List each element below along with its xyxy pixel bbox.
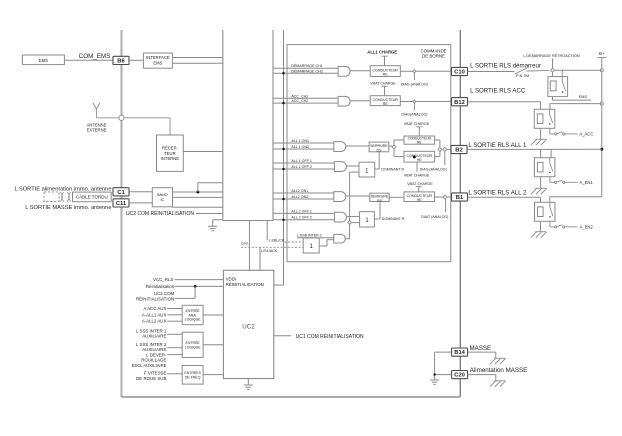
svg-text:ACC_CH1: ACC_CH1 xyxy=(291,94,308,98)
svg-text:EMS: EMS xyxy=(153,61,162,66)
svg-text:DIAG (ANALOG): DIAG (ANALOG) xyxy=(420,167,447,171)
svg-text:ALL2 ON1: ALL2 ON1 xyxy=(291,189,308,193)
svg-text:ALL 1 OFF 1: ALL 1 OFF 1 xyxy=(291,159,311,163)
svg-text:RE: RE xyxy=(417,140,422,144)
svg-text:AUXILIAIRE: AUXILIAIRE xyxy=(142,347,166,352)
svg-text:COM_EMS: COM_EMS xyxy=(79,53,111,60)
svg-text:RE: RE xyxy=(383,73,389,77)
svg-text:UC2 COM: UC2 COM xyxy=(154,291,175,296)
svg-text:Alimentation MASSE: Alimentation MASSE xyxy=(470,367,527,374)
svg-text:EMS: EMS xyxy=(39,58,48,63)
svg-text:L SSS INTER 1: L SSS INTER 1 xyxy=(136,328,167,333)
svg-text:L SORTIE RLS démarreur: L SORTIE RLS démarreur xyxy=(470,63,541,70)
svg-text:UC2: UC2 xyxy=(242,324,255,331)
svg-text:EMS: EMS xyxy=(579,95,588,99)
svg-text:ALL 1 ON1: ALL 1 ON1 xyxy=(291,139,309,143)
svg-text:A_EN1: A_EN1 xyxy=(580,180,594,185)
svg-text:A_ACC: A_ACC xyxy=(579,132,593,137)
svg-text:L DÉMARRAGE RÉTROACTION: L DÉMARRAGE RÉTROACTION xyxy=(523,53,579,58)
svg-text:A-ALL2 AUX: A-ALL2 AUX xyxy=(142,319,167,324)
svg-text:L EBL/CK: L EBL/CK xyxy=(269,239,285,243)
svg-text:MASSE: MASSE xyxy=(470,345,492,352)
svg-text:L SORTIE MASSE immo. antenne: L SORTIE MASSE immo. antenne xyxy=(25,205,111,211)
svg-text:DS: DS xyxy=(376,148,382,152)
svg-text:DE ROUE SUB: DE ROUE SUB xyxy=(136,376,166,381)
svg-text:P-N SM: P-N SM xyxy=(516,74,529,78)
svg-text:VBAT CHARGE: VBAT CHARGE xyxy=(404,174,430,178)
svg-text:B+: B+ xyxy=(599,51,605,56)
svg-text:A_EN2: A_EN2 xyxy=(580,225,594,230)
svg-text:C1: C1 xyxy=(117,190,125,196)
svg-text:VDDi: VDDi xyxy=(226,277,236,282)
svg-text:C20: C20 xyxy=(454,373,465,379)
svg-text:RÉINITIALISATION: RÉINITIALISATION xyxy=(136,296,174,301)
svg-text:Com: Com xyxy=(241,242,248,246)
svg-text:ALL1 CHARGE: ALL1 CHARGE xyxy=(367,49,397,54)
svg-text:ROUILLAGE: ROUILLAGE xyxy=(141,358,166,363)
svg-text:A-ALL1 AUX: A-ALL1 AUX xyxy=(142,312,167,317)
svg-text:L SSS INTER 2: L SSS INTER 2 xyxy=(136,342,167,347)
svg-text:AUXILIAIRE: AUXILIAIRE xyxy=(142,334,166,339)
svg-text:ALL2 ON2: ALL2 ON2 xyxy=(291,195,308,199)
svg-text:L SSB INTER 1: L SSB INTER 1 xyxy=(297,233,322,237)
svg-text:VBAT CHARGE: VBAT CHARGE xyxy=(407,182,433,186)
svg-text:LOGIQUE: LOGIQUE xyxy=(185,345,202,349)
svg-text:EXTERNE: EXTERNE xyxy=(87,128,107,133)
svg-text:RÉCEP-: RÉCEP- xyxy=(162,146,178,151)
svg-text:UC1 COM RÉINITIALISATION: UC1 COM RÉINITIALISATION xyxy=(296,333,364,340)
svg-text:DOMINANT R: DOMINANT R xyxy=(381,168,404,172)
svg-text:DE BORNE: DE BORNE xyxy=(422,54,445,59)
svg-text:ALL 2 OFF 2: ALL 2 OFF 2 xyxy=(291,216,311,220)
svg-text:A ACC AUX: A ACC AUX xyxy=(143,306,166,311)
svg-text:HE: HE xyxy=(417,158,423,162)
svg-text:DIAG (ANALOG): DIAG (ANALOG) xyxy=(401,83,428,87)
svg-text:DE FRÉQ: DE FRÉQ xyxy=(185,374,201,379)
svg-text:DÉMARRAGE CH2: DÉMARRAGE CH2 xyxy=(291,68,322,73)
svg-text:B12: B12 xyxy=(454,100,465,106)
svg-text:L SORTIE RLS ALL 2: L SORTIE RLS ALL 2 xyxy=(468,189,527,196)
svg-text:CÂBLE TORDU: CÂBLE TORDU xyxy=(76,193,108,199)
svg-text:B1: B1 xyxy=(456,195,464,201)
svg-text:L SORTIE alimentation immo. an: L SORTIE alimentation immo. antenne xyxy=(14,187,111,193)
svg-text:Réinitialisation: Réinitialisation xyxy=(146,284,175,289)
svg-text:HE: HE xyxy=(417,198,423,202)
svg-text:ESCL AUXILIAIRE: ESCL AUXILIAIRE xyxy=(132,363,167,368)
svg-text:RE: RE xyxy=(383,102,389,106)
svg-text:L/SL/ACK: L/SL/ACK xyxy=(261,249,277,253)
svg-text:C10: C10 xyxy=(454,70,465,76)
svg-text:B2: B2 xyxy=(455,148,462,154)
svg-text:B6: B6 xyxy=(117,59,125,65)
svg-text:RÉINITIALISATION: RÉINITIALISATION xyxy=(226,282,264,287)
svg-text:ALL 1 OFF 2: ALL 1 OFF 2 xyxy=(291,165,311,169)
svg-text:DIAG(ANALOG): DIAG(ANALOG) xyxy=(401,113,427,117)
svg-text:VBAT CHARGE: VBAT CHARGE xyxy=(404,122,430,126)
svg-text:DÉMARRAGE CH1: DÉMARRAGE CH1 xyxy=(291,63,322,68)
svg-text:UC2 COM RÉINITIALISATION: UC2 COM RÉINITIALISATION xyxy=(126,210,194,217)
svg-text:F VITESSE: F VITESSE xyxy=(144,371,167,376)
svg-text:C11: C11 xyxy=(116,201,127,207)
svg-text:IC: IC xyxy=(160,197,164,202)
svg-text:ALL 2 OFF 1: ALL 2 OFF 1 xyxy=(291,209,311,213)
svg-text:B14: B14 xyxy=(454,350,465,356)
svg-text:VCC_RLS: VCC_RLS xyxy=(153,277,173,282)
svg-text:INTERFACE: INTERFACE xyxy=(146,55,170,60)
svg-text:ACC_CH2: ACC_CH2 xyxy=(291,99,308,103)
svg-text:L SORTIE RLS ALL 1: L SORTIE RLS ALL 1 xyxy=(468,142,527,149)
svg-text:VBAT CHARGE: VBAT CHARGE xyxy=(370,82,396,86)
svg-text:TEUR: TEUR xyxy=(164,151,175,156)
svg-text:LOGIQUE: LOGIQUE xyxy=(185,318,202,322)
svg-text:L SORTIE RLS ACC: L SORTIE RLS ACC xyxy=(470,88,526,95)
svg-text:DIAG (ANALOG): DIAG (ANALOG) xyxy=(421,215,448,219)
svg-text:ALL 1 ON2: ALL 1 ON2 xyxy=(291,145,309,149)
svg-text:L DÉVER-: L DÉVER- xyxy=(146,352,167,357)
svg-text:DOMINANT R: DOMINANT R xyxy=(382,217,405,221)
svg-text:INTERNE: INTERNE xyxy=(161,156,180,161)
